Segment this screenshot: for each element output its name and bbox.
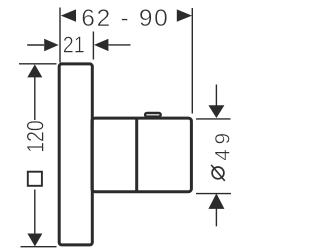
handle body xyxy=(92,118,191,192)
grip tab xyxy=(145,113,161,117)
62-90 left arrowhead xyxy=(61,9,76,21)
right extension line 62-90 xyxy=(191,8,193,114)
wall plate side view xyxy=(59,64,92,245)
dia49 top extension line xyxy=(196,118,231,120)
diameter symbol slash xyxy=(211,165,225,181)
svg-text:21: 21 xyxy=(63,32,85,58)
dim120 bottom arrowhead xyxy=(27,234,42,247)
dia49 top arrow tail xyxy=(215,85,217,107)
dim120 bottom extension line xyxy=(21,246,57,248)
dia49 bottom arrowhead xyxy=(208,193,224,209)
21 right arrow tail xyxy=(108,44,130,46)
handle divider line xyxy=(135,119,138,191)
diameter symbol circle xyxy=(212,167,224,179)
21 right arrowhead xyxy=(94,39,108,51)
dia49 bottom arrow tail xyxy=(215,209,217,227)
dia49 bottom extension line xyxy=(196,193,231,195)
21 right extension line xyxy=(92,32,94,60)
dia49 top arrowhead xyxy=(208,105,224,118)
21 left arrowhead xyxy=(44,39,58,51)
21 left arrow tail xyxy=(27,44,44,46)
svg-text:62 - 90: 62 - 90 xyxy=(81,5,168,32)
dim120 upper dimension line xyxy=(34,77,36,120)
square symbol of dim120 label xyxy=(28,172,42,186)
svg-text:120: 120 xyxy=(23,120,50,153)
left extension line xyxy=(59,8,61,63)
dim120 lower dimension line xyxy=(34,190,36,235)
62-90 right arrowhead xyxy=(177,9,192,21)
dim120 top arrowhead xyxy=(27,64,42,77)
dim120 top extension line xyxy=(19,63,57,65)
